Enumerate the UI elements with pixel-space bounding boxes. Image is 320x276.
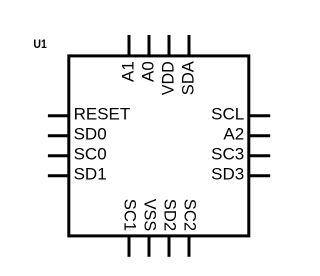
- pin SD1 wire (left): [48, 174, 70, 177]
- svg-text:SD3: SD3: [211, 164, 244, 183]
- pin SC0 wire (left): [48, 154, 70, 157]
- IC U1 body: [69, 56, 249, 236]
- svg-text:SDA: SDA: [178, 61, 197, 96]
- pin SD2 wire (bottom): [168, 235, 171, 257]
- pin A2 wire (right): [248, 134, 271, 137]
- svg-text:RESET: RESET: [74, 104, 131, 123]
- pin SC2 wire (bottom): [188, 235, 191, 257]
- pin VSS wire (bottom): [148, 235, 151, 257]
- pin SC3 wire (right): [248, 154, 271, 157]
- svg-text:SD0: SD0: [74, 124, 107, 143]
- svg-text:A0: A0: [138, 61, 157, 82]
- svg-text:SD2: SD2: [161, 199, 180, 232]
- svg-text:SC1: SC1: [121, 199, 140, 232]
- svg-text:U1: U1: [33, 37, 47, 51]
- pin SD3 wire (right): [248, 174, 271, 177]
- pin A1 wire (top): [128, 35, 131, 57]
- pin SCL wire (right): [248, 114, 271, 117]
- svg-text:SD1: SD1: [74, 164, 107, 183]
- pin SDA wire (top): [188, 35, 191, 57]
- pin SD0 wire (left): [48, 134, 70, 137]
- svg-text:VDD: VDD: [158, 61, 177, 95]
- pin SC1 wire (bottom): [128, 235, 131, 257]
- svg-text:SCL: SCL: [211, 104, 244, 123]
- svg-text:VSS: VSS: [141, 199, 160, 232]
- svg-text:SC3: SC3: [211, 144, 244, 163]
- svg-text:SC2: SC2: [181, 199, 200, 232]
- pin A0 wire (top): [148, 35, 151, 57]
- pin RESET wire (left): [48, 114, 70, 117]
- svg-text:SC0: SC0: [74, 144, 107, 163]
- svg-text:A1: A1: [118, 61, 137, 82]
- pin VDD wire (top): [168, 35, 171, 57]
- svg-text:A2: A2: [223, 124, 244, 143]
